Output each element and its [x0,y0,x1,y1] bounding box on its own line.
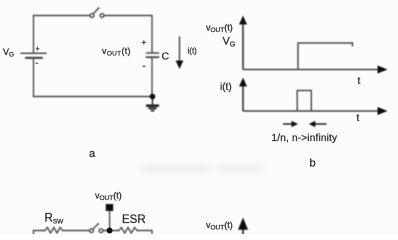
wire: top wire right segment (circuit a) [104,15,152,17]
wire: RSW to switch (circuit c) [63,230,90,232]
svg-text:-: - [36,59,39,68]
capacitor C [147,53,159,57]
wire: left drop (circuit c) [34,231,46,235]
battery VG [21,53,46,96]
width arrow left-pointing [309,121,327,127]
wire: top wire left segment (circuit a) [34,15,90,17]
wire: switch to node (circuit c) [103,230,108,232]
wire: ESR to right drop (circuit c) [137,231,152,235]
svg-text:1/n, n->infinity: 1/n, n->infinity [272,133,338,144]
svg-text:VG: VG [3,47,14,59]
graph d y-axis arrow [238,218,248,235]
svg-text:ESR: ESR [122,214,146,226]
svg-text:vOUT(t): vOUT(t) [206,220,233,232]
svg-text:vOUT(t): vOUT(t) [95,191,122,203]
switch SW2 (circuit c) [90,223,103,233]
step waveform vOUT [298,43,353,69]
svg-text:RSW: RSW [45,213,65,226]
svg-text:C: C [162,51,170,63]
node junction (circuit c) [107,228,113,234]
svg-text:-: - [143,61,146,71]
graph 2 (i) axes [239,78,388,116]
wire: right vertical upper (circuit a) [151,16,153,53]
arrow i(t) (circuit a) [176,37,184,70]
svg-text:t: t [357,113,360,124]
svg-text:VG: VG [223,36,236,49]
wire: bottom wire (circuit a) [34,96,153,98]
svg-text:vOUT(t): vOUT(t) [206,23,233,35]
background smudge [141,164,263,173]
svg-text:vOUT(t): vOUT(t) [102,46,131,58]
svg-text:t: t [358,76,361,87]
probe square (circuit c) [106,204,113,231]
resistor RSW [45,228,63,234]
svg-text:i(t): i(t) [188,47,198,56]
svg-text:i(t): i(t) [220,82,232,93]
graph 1 (vOUT) axes [239,16,388,74]
pulse waveform i [297,91,311,112]
wire: right vertical lower (circuit a) [151,59,153,97]
wire: left vertical (circuit a) [33,16,35,53]
svg-text:b: b [310,158,316,170]
wire: node to ESR (circuit c) [113,230,120,232]
resistor ESR [119,228,137,234]
svg-text:+: + [142,38,147,47]
ground (circuit a) [146,94,159,111]
switch SW1 (open, circuit a) [90,7,104,17]
svg-text:+: + [36,46,40,53]
width arrow right-pointing [283,121,298,127]
svg-text:a: a [89,148,96,160]
